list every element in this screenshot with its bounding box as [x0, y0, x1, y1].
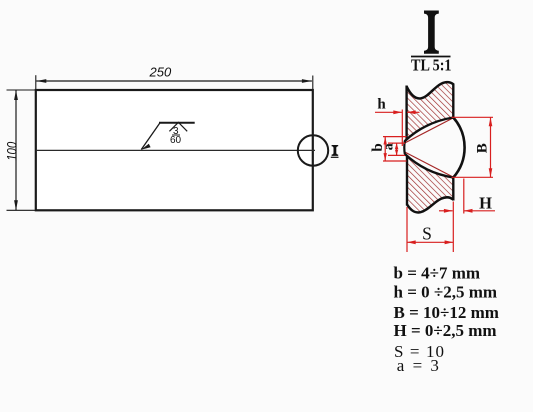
- dim a extension bottom: [388, 154, 405, 156]
- dim S line: [407, 241, 453, 243]
- svg-text:B = 10÷12 mm: B = 10÷12 mm: [394, 303, 499, 322]
- dim h line right arm: [407, 111, 420, 113]
- dim line 100: [15, 90, 17, 210]
- weld face arc (right): [453, 118, 464, 178]
- dim b extension bottom: [383, 160, 407, 162]
- svg-text:b = 4÷7 mm: b = 4÷7 mm: [394, 264, 481, 283]
- weld symbol fraction bar: [172, 134, 180, 136]
- plate right edge upper: [452, 84, 454, 119]
- red V-groove line lower: [405, 152, 453, 177]
- svg-text:S: S: [422, 223, 432, 243]
- plate rectangle: [36, 90, 313, 210]
- dim H line left arm: [439, 210, 453, 212]
- dim a line: [396, 143, 398, 155]
- dim S extension right: [452, 202, 454, 253]
- detail circle: [298, 135, 328, 165]
- weld symbol leader arrow: [141, 144, 151, 150]
- dim H line right arm: [464, 210, 495, 212]
- dim b line: [384, 137, 386, 161]
- dim 250 extension right: [312, 76, 314, 91]
- plate left edge upper: [405, 86, 407, 140]
- svg-text:H: H: [479, 194, 492, 213]
- dim H extension: [463, 179, 465, 214]
- svg-text:100: 100: [3, 142, 19, 161]
- title fraction bar: [411, 56, 451, 58]
- dim 250 extension left: [35, 75, 37, 90]
- dim S extension left: [406, 207, 408, 252]
- red V-groove line upper: [405, 118, 453, 143]
- weld root face: [403, 141, 406, 154]
- svg-text:H = 0÷2,5 mm: H = 0÷2,5 mm: [394, 321, 497, 340]
- weld lower fusion arc: [405, 154, 454, 178]
- svg-text:h: h: [377, 97, 386, 113]
- dim line 250: [36, 80, 312, 82]
- hatched lower plate piece: [405, 154, 454, 213]
- bottom break line: [407, 197, 453, 212]
- hatched upper plate piece: [405, 82, 454, 141]
- svg-text:a: a: [382, 143, 397, 150]
- svg-text:h = 0 ÷2,5 mm: h = 0 ÷2,5 mm: [394, 283, 498, 302]
- title I (big serif): [424, 11, 439, 54]
- dim B line: [490, 117, 492, 177]
- dim h line left arm: [375, 111, 402, 113]
- svg-text:TL 5:1: TL 5:1: [411, 56, 452, 75]
- centerline: [36, 149, 315, 151]
- weld symbol reference line: [159, 122, 195, 124]
- svg-text:250: 250: [149, 65, 172, 80]
- weld symbol V: [169, 122, 187, 131]
- dim a extension top: [388, 142, 405, 144]
- dim h extension: [401, 110, 403, 147]
- svg-text:60: 60: [170, 135, 182, 146]
- dim b extension top: [383, 136, 407, 138]
- top break line: [407, 82, 454, 98]
- plate left edge lower: [406, 156, 408, 206]
- dim B extension bottom: [452, 176, 494, 178]
- plate right edge lower: [452, 177, 454, 201]
- weld symbol leader line: [141, 123, 160, 150]
- svg-text:a = 3: a = 3: [397, 356, 441, 375]
- dim 100 extension bottom: [7, 209, 36, 211]
- weld upper fusion arc: [405, 118, 454, 142]
- svg-text:B: B: [475, 143, 491, 153]
- dim B extension top: [452, 116, 494, 118]
- dim 100 extension top: [7, 89, 36, 91]
- detail label I: [332, 145, 339, 156]
